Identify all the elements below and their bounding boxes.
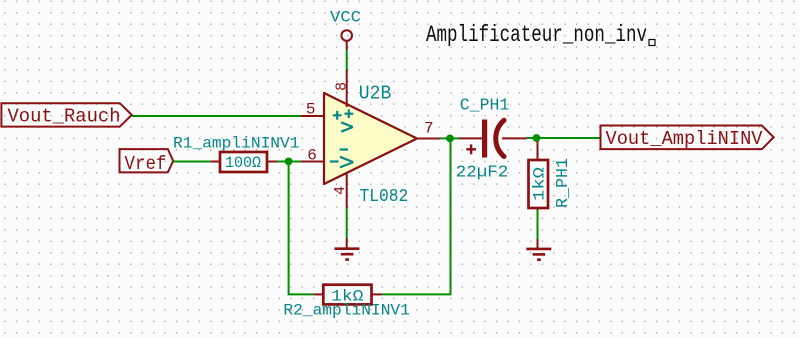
wire R1 to pin 6 bbox=[277, 161, 301, 163]
op-amp U2B bbox=[301, 70, 440, 208]
svg-text:U2B: U2B bbox=[359, 83, 392, 105]
wire Vref to R1 bbox=[173, 161, 211, 163]
svg-text:Vref: Vref bbox=[125, 153, 167, 175]
svg-text:1kΩ: 1kΩ bbox=[531, 167, 549, 201]
wire R_PH1 to ground bbox=[537, 210, 539, 239]
V- marker rotated bbox=[340, 150, 354, 168]
svg-text:R2_ampliNINV1: R2_ampliNINV1 bbox=[283, 301, 410, 319]
wire VCC to pin 8 bbox=[346, 50, 348, 70]
plus input marker bbox=[333, 111, 342, 120]
resistor R_PH1 bbox=[529, 141, 574, 212]
svg-text:22µF2: 22µF2 bbox=[456, 164, 509, 183]
svg-text:Amplificateur_non_inv: Amplificateur_non_inv bbox=[426, 22, 647, 48]
title text Amplificateur_non_inv bbox=[426, 22, 655, 48]
resistor R2_ampliNINV1 bbox=[283, 285, 410, 320]
junction at inverting input node bbox=[285, 158, 293, 166]
power VCC bbox=[330, 9, 361, 51]
ground under R_PH1 bbox=[526, 239, 551, 260]
wire pin4 to ground bbox=[346, 208, 348, 238]
junction at output node bbox=[446, 135, 454, 143]
pin 4 bbox=[346, 172, 348, 208]
pin 5 bbox=[301, 115, 324, 117]
svg-text:Vout_Rauch: Vout_Rauch bbox=[8, 106, 121, 128]
wire capacitor to output label bbox=[527, 137, 601, 139]
svg-text:TL082: TL082 bbox=[360, 187, 409, 207]
pin 6 bbox=[301, 161, 324, 163]
pin 7 bbox=[417, 138, 440, 140]
wire Vout_Rauch to pin 5 bbox=[132, 115, 301, 117]
svg-text:100Ω: 100Ω bbox=[225, 154, 261, 172]
svg-text:7: 7 bbox=[424, 119, 434, 137]
ground under op-amp bbox=[335, 238, 360, 260]
wire feedback left vertical bbox=[289, 161, 314, 294]
svg-text:Vout_AmpliNINV: Vout_AmpliNINV bbox=[606, 128, 763, 150]
pin 8 bbox=[346, 70, 348, 107]
hierarchical label Vout_AmpliNINV bbox=[601, 126, 774, 150]
junction at C/R node bbox=[533, 134, 541, 142]
wire output pin7 to capacitor bbox=[440, 137, 459, 139]
svg-text:4: 4 bbox=[332, 186, 349, 195]
V+ marker rotated bbox=[341, 109, 353, 131]
svg-text:C_PH1: C_PH1 bbox=[460, 96, 510, 115]
svg-text:VCC: VCC bbox=[330, 9, 361, 27]
svg-text:6: 6 bbox=[307, 147, 317, 165]
svg-text:R1_ampliNINV1: R1_ampliNINV1 bbox=[173, 134, 300, 152]
capacitor C_PH1 bbox=[456, 96, 527, 182]
svg-text:8: 8 bbox=[333, 82, 350, 91]
minus input marker bbox=[330, 160, 339, 162]
hierarchical label Vout_Rauch bbox=[1, 103, 131, 128]
svg-text:R_PH1: R_PH1 bbox=[554, 158, 573, 208]
wire feedback right vertical to output node bbox=[382, 138, 450, 294]
wire junction down to R_PH1 bbox=[537, 138, 539, 143]
svg-text:5: 5 bbox=[306, 100, 316, 118]
resistor R1_ampliNINV1 bbox=[173, 134, 300, 172]
hierarchical label Vref bbox=[120, 149, 174, 175]
